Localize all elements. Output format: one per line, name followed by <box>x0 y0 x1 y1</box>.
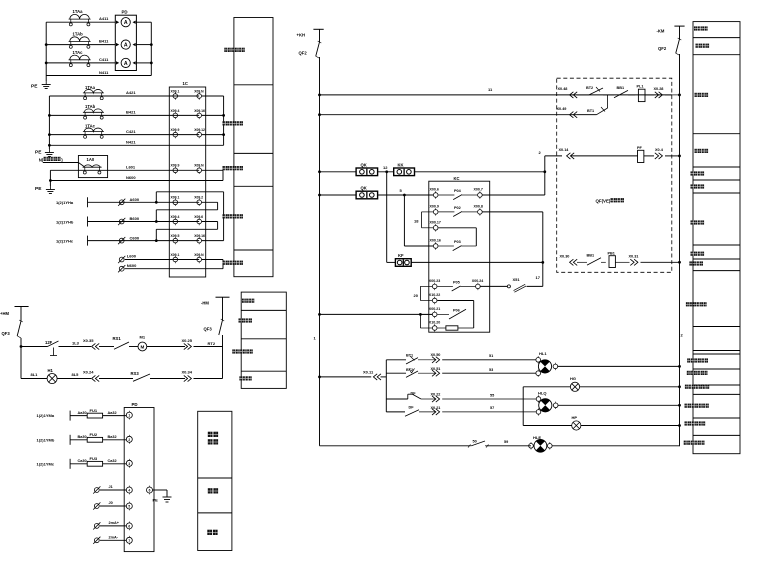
svg-text:A: A <box>124 43 128 49</box>
rung2 wire d <box>150 378 185 380</box>
wire s2 <box>386 372 406 374</box>
ammeter A phase c <box>121 58 130 67</box>
svg-text:N600: N600 <box>126 175 136 180</box>
table border <box>693 384 740 386</box>
table border <box>693 326 740 328</box>
right return bus <box>150 22 152 75</box>
terminal pair 1C C600 <box>173 238 178 243</box>
svg-text:QF2: QF2 <box>658 46 667 51</box>
connector L600-N600 <box>222 260 224 269</box>
wire <box>415 171 545 173</box>
label row 手动合闸 <box>691 171 694 175</box>
svg-text:X09.N: X09.N <box>194 164 204 168</box>
label row 合闸回路 <box>695 149 698 153</box>
table border <box>693 353 740 355</box>
table border <box>693 192 740 194</box>
contact BT2 (sig) <box>406 371 418 377</box>
svg-text:50: 50 <box>473 439 477 443</box>
ammeter A phase a <box>121 18 130 27</box>
wire L600 <box>125 259 199 261</box>
svg-text:BT2: BT2 <box>586 86 593 90</box>
motor M1 <box>138 342 147 351</box>
ground PE (1A0) <box>49 186 51 190</box>
svg-text:PE: PE <box>31 84 38 90</box>
label row 零序电流测量 <box>223 166 226 170</box>
rung2 wire c <box>99 378 133 380</box>
wire HL1 out <box>558 365 680 367</box>
table border <box>234 152 273 154</box>
svg-text:+KH: +KH <box>297 33 306 38</box>
svg-text:M: M <box>140 344 144 349</box>
wire Aa32 <box>103 415 127 417</box>
loop rail <box>522 387 524 426</box>
switch QK lower <box>356 191 378 199</box>
terminal X10.20 <box>432 326 437 331</box>
wire <box>644 155 654 157</box>
svg-text:Ca30: Ca30 <box>78 459 87 463</box>
junction <box>543 170 546 173</box>
terminal X0.31 <box>634 259 638 265</box>
label row 断路器合闸指示 <box>685 385 688 389</box>
table border <box>241 338 286 340</box>
svg-text:X00.21: X00.21 <box>429 307 440 311</box>
svg-text:1(2)1YHc: 1(2)1YHc <box>56 238 74 243</box>
contact P05 <box>437 285 453 287</box>
svg-text:X0.31: X0.31 <box>629 254 639 258</box>
junction <box>678 365 681 368</box>
svg-text:X09.1: X09.1 <box>171 196 180 200</box>
svg-text:QF2: QF2 <box>299 51 308 56</box>
svg-text:2mA-: 2mA- <box>109 536 119 540</box>
svg-text:X09.16: X09.16 <box>194 234 205 238</box>
svg-text:P04: P04 <box>454 189 462 193</box>
svg-text:3: 3 <box>128 462 130 466</box>
wire A421 <box>49 95 199 97</box>
svg-text:L601: L601 <box>126 164 136 169</box>
wire <box>603 94 614 96</box>
wire 11 (closing prep) <box>320 94 672 96</box>
label row 手车试验位置 <box>687 358 690 362</box>
wire s1 long <box>442 359 536 361</box>
table border <box>234 84 273 86</box>
CT zero sequence <box>83 166 102 168</box>
svg-text:X0.30: X0.30 <box>560 254 570 258</box>
svg-text:X09.16: X09.16 <box>194 109 205 113</box>
svg-text:KK: KK <box>398 163 404 168</box>
source bar 1(2)1YHa <box>87 197 89 207</box>
right control rail <box>679 54 681 446</box>
junction <box>541 261 544 264</box>
terminal PE internal <box>147 487 153 493</box>
fuse link N600 <box>119 266 124 271</box>
svg-text:A421: A421 <box>126 90 136 95</box>
contact 12F <box>48 341 59 347</box>
svg-text:17: 17 <box>536 275 541 280</box>
wire N600 <box>125 268 223 270</box>
svg-text:X09.1: X09.1 <box>171 89 180 93</box>
wire bus left of ammeter block <box>45 22 47 81</box>
svg-text:18: 18 <box>414 219 419 224</box>
label row 电气联锁 <box>239 318 242 322</box>
wire into 1A0 <box>43 162 78 164</box>
svg-text:Aa30: Aa30 <box>78 411 87 415</box>
terminal X00.8 <box>478 210 483 215</box>
svg-text:X0.48: X0.48 <box>558 87 568 91</box>
svg-text:Ca32: Ca32 <box>108 459 117 463</box>
label row 弹簧储能回路 <box>686 302 689 306</box>
rung1 wire b <box>59 346 92 348</box>
breaker QF3 left <box>17 321 21 336</box>
contact P04 <box>438 194 454 196</box>
svg-text:B421: B421 <box>126 110 136 115</box>
svg-text:Ba30: Ba30 <box>78 435 87 439</box>
relay box KC <box>429 181 490 332</box>
svg-text:1TAc: 1TAc <box>85 123 96 128</box>
svg-text:X0.49: X0.49 <box>557 107 567 111</box>
CT 1TAb <box>69 41 91 43</box>
svg-text:PD: PD <box>132 402 138 407</box>
svg-text:X0.22: X0.22 <box>431 392 441 396</box>
riser 2 <box>544 156 546 195</box>
svg-text:1TAa: 1TAa <box>73 9 84 14</box>
contact BT2 <box>577 94 589 96</box>
svg-text:X0.28: X0.28 <box>654 87 664 91</box>
terminal X0.28 <box>659 92 663 98</box>
wire node5 to X00.16 <box>403 195 405 246</box>
svg-text:X09.12: X09.12 <box>194 128 205 132</box>
collector bus right of 1C <box>223 96 225 145</box>
svg-text:N600: N600 <box>127 263 137 268</box>
CT 1TAb (meas) <box>83 111 104 113</box>
svg-text:X00.6: X00.6 <box>430 188 439 192</box>
junction <box>318 94 321 97</box>
function table (current/voltage) <box>234 18 273 277</box>
svg-text:C421: C421 <box>126 129 136 134</box>
contact P06 <box>437 313 449 315</box>
breaker QF2 left <box>316 42 320 56</box>
terminal PD 2 <box>126 436 132 442</box>
wire A600 <box>88 201 200 203</box>
switch KF <box>395 259 411 267</box>
label row 控制电源 <box>694 26 697 30</box>
lamp H1 <box>47 374 57 384</box>
svg-text:PF: PF <box>637 146 643 150</box>
svg-text:BB1: BB1 <box>617 86 625 90</box>
wire s3 <box>386 398 408 400</box>
meter arrows <box>116 43 119 46</box>
label row 分闸回路 <box>691 220 694 224</box>
svg-text:1TAb: 1TAb <box>73 32 84 37</box>
svg-text:B600: B600 <box>130 216 140 221</box>
svg-text:PE: PE <box>153 498 159 503</box>
terminal PD 6 <box>126 523 132 529</box>
ground PE (CT block2) <box>48 149 50 153</box>
annunciator table <box>198 411 232 550</box>
wire X0.14 row <box>545 155 562 157</box>
svg-text:RT2: RT2 <box>208 341 216 346</box>
contact RS3 <box>133 374 150 381</box>
wire B600 <box>88 221 200 223</box>
svg-text:1(2)1YMa: 1(2)1YMa <box>37 413 55 418</box>
svg-text:1L3: 1L3 <box>72 341 80 346</box>
svg-text:8L5: 8L5 <box>72 372 80 377</box>
svg-text:A411: A411 <box>99 16 109 21</box>
wire <box>387 261 396 263</box>
terminal X0.14 <box>567 153 571 159</box>
wire L601 <box>50 169 199 171</box>
source bar 1(2)1YMc <box>69 459 71 469</box>
wire HLQ out <box>558 404 680 406</box>
svg-text:H1: H1 <box>48 368 54 373</box>
ground (PD) <box>163 496 172 498</box>
svg-text:P05: P05 <box>453 280 460 284</box>
coil PB1 <box>609 256 615 268</box>
svg-text:HG: HG <box>570 376 576 381</box>
wire X51 out <box>527 285 543 287</box>
wire <box>378 194 434 196</box>
terminal pair 1C y=115.4 <box>173 113 178 118</box>
wire s3 long <box>442 398 536 400</box>
wire Aa30 <box>70 415 87 417</box>
label row 手动分闸 <box>691 252 694 256</box>
table border <box>234 249 273 251</box>
svg-text:53: 53 <box>489 368 493 372</box>
junction <box>49 179 52 182</box>
svg-text:X09.4: X09.4 <box>171 109 180 113</box>
label row 模拟信号 <box>208 432 213 437</box>
svg-text:P02: P02 <box>454 206 461 210</box>
svg-text:X0.50: X0.50 <box>431 353 441 357</box>
rung1 wire c <box>99 346 114 348</box>
svg-text:HLE: HLE <box>533 435 541 440</box>
table border <box>693 270 740 272</box>
svg-text:RS1: RS1 <box>113 336 122 341</box>
right function table <box>693 22 740 454</box>
fuse link L600 <box>119 257 124 262</box>
jumper 18 <box>422 211 434 213</box>
svg-text:X10.20: X10.20 <box>429 321 440 325</box>
svg-text:51: 51 <box>489 354 493 358</box>
jumper stub c2 <box>202 134 224 136</box>
wire <box>571 155 638 157</box>
svg-text:X0.35: X0.35 <box>83 338 94 343</box>
svg-text:X0.51: X0.51 <box>431 367 441 371</box>
supply -HM bar <box>216 296 230 298</box>
svg-text:X09.4: X09.4 <box>171 215 180 219</box>
svg-text:J0: J0 <box>109 501 113 505</box>
svg-text:X10.22: X10.22 <box>429 293 440 297</box>
svg-text:1TAa: 1TAa <box>85 85 96 90</box>
wire C421 <box>49 134 199 136</box>
terminal X0.50 <box>436 357 440 363</box>
svg-text:A600: A600 <box>130 197 140 202</box>
svg-text:X00.17: X00.17 <box>430 220 441 224</box>
rung1 wire d <box>129 346 138 348</box>
table border <box>241 309 286 311</box>
svg-text:A: A <box>124 61 128 67</box>
jumper a over to c <box>155 192 157 203</box>
table border <box>693 166 740 168</box>
left earth stem <box>49 170 51 186</box>
source bar 1(2)1YHb <box>87 217 89 227</box>
wire (closing prep b) <box>320 114 597 116</box>
svg-text:A: A <box>124 20 128 26</box>
wire QK row <box>320 171 357 173</box>
lamp HLE <box>529 444 534 449</box>
svg-text:57: 57 <box>490 406 494 410</box>
table border <box>693 54 740 56</box>
svg-text:FU1: FU1 <box>90 408 98 413</box>
riser 17 <box>542 212 544 287</box>
terminal X0.22 <box>436 396 440 402</box>
contact DF lower <box>405 410 419 417</box>
svg-text:HP: HP <box>572 415 578 420</box>
wire C600 <box>88 240 200 242</box>
svg-text:1(2)1YHa: 1(2)1YHa <box>56 200 74 205</box>
jumper stub L600 <box>202 259 223 261</box>
label row 接地开关指示 <box>684 441 687 445</box>
svg-text:X00.16: X00.16 <box>430 239 441 243</box>
junction <box>150 43 153 46</box>
breaker QF3 right <box>219 320 223 335</box>
left control rail <box>319 57 321 446</box>
svg-text:59: 59 <box>504 440 508 444</box>
wire Ba32 <box>103 439 127 441</box>
jumper stub b2 <box>202 114 224 116</box>
svg-text:X51: X51 <box>513 277 521 282</box>
jumper X00.21-X10.20 <box>420 313 432 315</box>
svg-text:RS3: RS3 <box>131 371 140 376</box>
table border <box>693 37 740 39</box>
junction <box>419 313 422 316</box>
svg-text:QF3: QF3 <box>2 331 11 336</box>
rung2 wire b <box>57 378 91 380</box>
supply +KH bar <box>313 28 323 30</box>
contact SQ <box>469 445 471 447</box>
table border <box>693 368 740 370</box>
jumper stub a2 <box>202 95 224 97</box>
svg-text:N(: N( <box>39 157 44 162</box>
svg-text:X09.1: X09.1 <box>171 253 180 257</box>
jumper 20 <box>420 285 432 287</box>
wire 2mA- <box>100 539 126 541</box>
junction <box>318 376 321 379</box>
terminal strip PD <box>124 408 154 552</box>
source bar 1(2)1YMb <box>69 435 71 445</box>
svg-text:P06: P06 <box>453 308 460 312</box>
table border <box>693 393 740 395</box>
ammeter A phase b <box>121 40 130 49</box>
svg-text:1TAc: 1TAc <box>73 50 84 55</box>
terminal X0.49 <box>570 112 574 118</box>
jumper b-col2 down <box>202 221 218 223</box>
svg-text:BT1: BT1 <box>587 109 594 113</box>
wire <box>628 94 635 96</box>
terminal PD 1 <box>126 412 132 418</box>
terminal PD 4 <box>126 487 132 493</box>
svg-text:1(2)1YMb: 1(2)1YMb <box>37 437 55 442</box>
meter arrows <box>116 21 119 24</box>
svg-text:FU3: FU3 <box>90 456 98 461</box>
CT 1TAa (meas) <box>83 92 104 94</box>
terminal pair 1C y=134.6 <box>173 132 178 137</box>
connector L-N <box>222 170 224 180</box>
switch QK <box>356 168 378 176</box>
source bar 1(2)1YMa <box>69 411 71 421</box>
svg-text:C600: C600 <box>130 235 140 240</box>
wire <box>665 94 679 96</box>
svg-text:X09.9: X09.9 <box>171 164 180 168</box>
label row 超程信号 <box>689 261 692 265</box>
svg-text:12F: 12F <box>45 340 53 345</box>
fuse link a <box>119 200 124 205</box>
node 12 <box>385 170 388 173</box>
svg-text:PE: PE <box>35 186 42 192</box>
svg-text:HL1: HL1 <box>539 351 547 356</box>
terminal X0.48 <box>570 92 574 98</box>
svg-text:BB1: BB1 <box>587 254 595 258</box>
table border <box>234 185 273 187</box>
terminal PD 3 <box>126 460 132 466</box>
junction dots voltage feeds <box>155 201 158 204</box>
svg-text:X0.34: X0.34 <box>182 370 193 375</box>
svg-text:P03: P03 <box>454 240 461 244</box>
meter panel PD box <box>115 15 136 70</box>
wire Ca32 <box>103 463 127 465</box>
wire phase A row1 <box>46 21 115 23</box>
svg-text:X09.N: X09.N <box>194 89 204 93</box>
svg-text:X00.24: X00.24 <box>472 279 483 283</box>
terminal X00.16 <box>433 244 438 249</box>
lamp HP <box>523 425 572 427</box>
wire N421 <box>49 144 223 146</box>
wire B421 <box>49 114 199 116</box>
lamp HL1 <box>536 358 541 363</box>
terminal pair 1C L601 <box>173 168 178 173</box>
junction <box>48 114 51 117</box>
label row 计量电流 <box>224 48 227 52</box>
svg-text:L600: L600 <box>127 254 137 259</box>
wire X00.7 out <box>483 194 545 196</box>
terminal X00.6 <box>433 193 438 198</box>
label row 多功能表电压 <box>223 214 226 218</box>
label row 驱动电机回路 <box>232 349 235 353</box>
svg-text:Aa32: Aa32 <box>108 411 117 415</box>
label row 合闸准备 <box>695 93 698 97</box>
svg-text:QF3: QF3 <box>204 327 213 332</box>
svg-text:4: 4 <box>128 489 130 493</box>
wire X10.22 right <box>437 300 473 302</box>
fuse link c <box>119 238 124 243</box>
label row 转换 <box>208 488 213 493</box>
fuse FU2 <box>87 437 102 442</box>
CT 1TAc (meas) <box>83 131 104 133</box>
lamp HG <box>523 386 570 388</box>
terminal X00.21 <box>432 312 437 317</box>
label row 断路器分闸指示 <box>685 404 688 408</box>
svg-text:6: 6 <box>149 489 151 493</box>
wire N600 <box>50 180 223 182</box>
junction <box>678 404 681 407</box>
svg-text:KC: KC <box>454 176 460 181</box>
table border <box>693 434 740 436</box>
terminal X10.22 <box>432 298 437 303</box>
svg-text:X0.21: X0.21 <box>431 406 441 410</box>
wire Ba30 <box>70 439 87 441</box>
rung2 wire e <box>194 378 223 380</box>
ground PE (ammeter block) <box>45 81 47 85</box>
supply +HM bar <box>15 306 29 308</box>
